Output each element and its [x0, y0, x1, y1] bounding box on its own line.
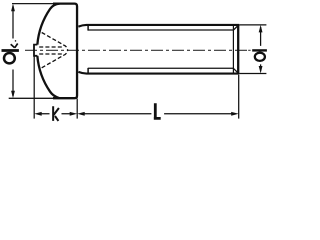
thread chamfer boundary line [232, 26, 234, 74]
dimension line k [41, 113, 70, 115]
extension line dk top [12, 3, 56, 5]
arrow dk top [11, 4, 15, 12]
arrow d bottom [259, 66, 263, 74]
extension line d top [240, 24, 267, 26]
extension line k left [33, 56, 35, 119]
thread start tick top [87, 25, 89, 31]
chamfer top [234, 25, 239, 30]
chamfer bottom [234, 69, 239, 74]
extension line L right [238, 75, 240, 119]
label d (rotated) [252, 50, 267, 61]
arrow dk bottom [11, 91, 15, 99]
arrow L left [77, 112, 85, 116]
arrow k right [70, 112, 78, 116]
slot hidden line lower diagonal (dashed) [42, 50, 68, 68]
extension line d bottom [240, 73, 267, 75]
end face of screw [237, 25, 239, 74]
arrow L right [231, 112, 239, 116]
slot hidden line width bottom (dashed) [39, 53, 63, 55]
centerline (screw axis) [25, 49, 247, 51]
arrow k left [34, 112, 42, 116]
slot notch [34, 45, 37, 56]
head outline (pan head, thick) [53, 4, 77, 99]
extension line k right / L left [76, 99, 78, 119]
head dome arc lower [37, 56, 59, 98]
thread minor top line [88, 29, 233, 31]
slot hidden line upper diagonal (dashed) [42, 33, 68, 51]
label k [53, 106, 59, 121]
dimension line dk [12, 6, 14, 97]
extension line dk bottom [9, 97, 56, 99]
thread start tick bottom [87, 68, 89, 74]
slot hidden line width top (dashed) [39, 46, 63, 48]
dimension line d [260, 27, 262, 71]
shank outer bottom line with fillet taper [78, 72, 239, 74]
head dome arc upper [37, 4, 59, 45]
label dk (rotated d with subscript k) [2, 40, 19, 63]
shank outer top line with fillet taper [78, 25, 239, 27]
label L [154, 103, 161, 118]
dimension line L [84, 113, 232, 115]
thread minor bottom line [88, 67, 233, 69]
arrow d top [259, 25, 263, 33]
